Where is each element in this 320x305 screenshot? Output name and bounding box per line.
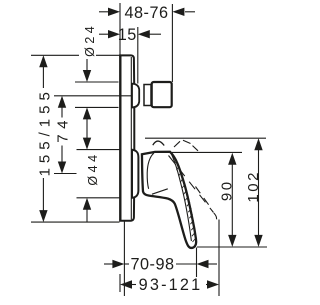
ext line 155 bottom [31,221,120,223]
knob axis line [54,95,133,97]
knob head [152,82,172,107]
handle inner edge [171,153,192,242]
ext line 155 top [31,54,120,56]
dimension 90 [228,153,236,247]
svg-text:48-76: 48-76 [124,4,168,22]
svg-text:93-121: 93-121 [139,276,203,294]
svg-text:Ø24: Ø24 [83,23,97,57]
svg-text:15: 15 [118,26,137,44]
handle outline [142,152,196,248]
lever axis line [54,173,77,175]
dashed open lever blade left [169,156,214,213]
extension line open lever x=219 [218,220,220,297]
ext line 102 top [145,137,266,139]
ext line sleeve bottom [77,197,120,199]
ext line lever tip bottom [197,246,267,248]
svg-text:74: 74 [54,115,71,143]
handle top arc [153,141,164,145]
dashed open lever dome [174,140,198,151]
handle blade hatching [174,161,196,242]
dimension 70-98 [104,263,217,265]
dimension 74 [58,96,66,174]
extension line 15 right [137,27,139,84]
extension line x=124.4 below plate [123,221,125,296]
wall line bottom stub [119,274,121,292]
svg-text:90: 90 [218,179,235,201]
dimension 15 [99,33,161,35]
plate outline [119,55,134,220]
dashed open lever blade right [196,187,212,209]
svg-text:102: 102 [245,170,262,203]
ext line sleeve top [77,149,120,151]
plate front inner line [130,57,132,220]
dimension O44 vertical [83,138,91,210]
handle inner bottom line [152,189,168,194]
wall line top segment [119,3,121,55]
ext line O24 top [75,81,119,83]
svg-text:Ø44: Ø44 [86,151,100,185]
extension line knob front 48-76 [171,4,173,82]
plate back edge [119,55,121,221]
dimension O24 vertical [86,59,88,71]
dashed open lever tip curve [214,213,217,219]
svg-text:155/155: 155/155 [37,87,54,176]
dimension 102 [254,138,262,247]
knob bell [132,84,139,108]
dimension 155/155 [39,55,47,222]
svg-text:70-98: 70-98 [130,256,174,274]
ext line O24 bottom [75,106,119,108]
dimension 48-76 [99,11,195,13]
handle inner stem line [147,153,154,189]
knob collar [144,85,151,106]
dimension 93-121 [131,284,208,286]
sleeve bell [132,150,138,198]
ext line 90 top [172,151,243,153]
extension line lever tip x=196.5 [196,248,198,278]
